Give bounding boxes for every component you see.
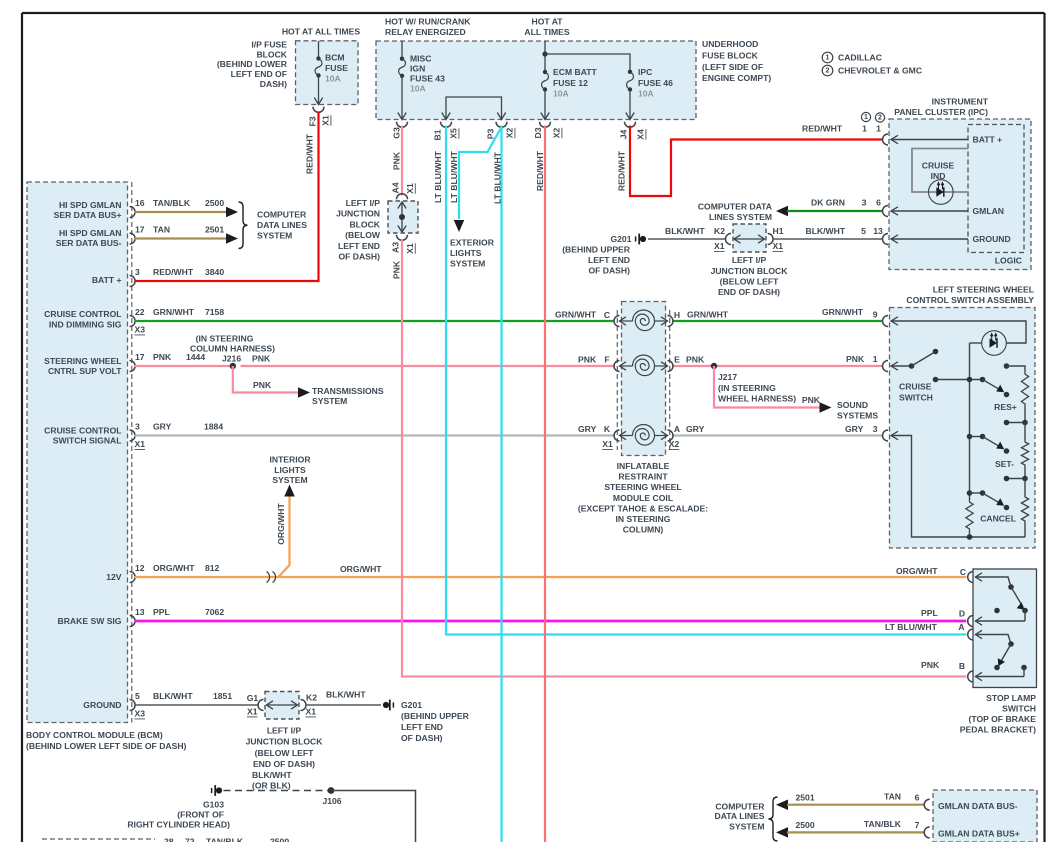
svg-text:1851: 1851 <box>213 691 232 701</box>
svg-text:GRN/WHT: GRN/WHT <box>555 310 597 320</box>
svg-text:IN STEERING: IN STEERING <box>616 514 671 524</box>
wire PNK 1444 BCM to coil with J216 splice <box>135 365 231 367</box>
svg-text:K2: K2 <box>306 693 317 703</box>
svg-text:1884: 1884 <box>204 422 223 432</box>
svg-text:H1: H1 <box>773 226 784 236</box>
IPC pin GROUND connector <box>883 234 889 245</box>
svg-text:3: 3 <box>873 424 878 434</box>
svg-text:CRUISE: CRUISE <box>922 161 955 171</box>
svg-text:1: 1 <box>864 114 868 121</box>
svg-text:JUNCTION: JUNCTION <box>336 209 380 219</box>
svg-text:(BELOW LEFT: (BELOW LEFT <box>720 277 779 287</box>
svg-text:MODULE COIL: MODULE COIL <box>613 493 673 503</box>
wire LT BLU/WHT branch to exterior lights system <box>459 127 502 219</box>
svg-text:(LEFT SIDE OF: (LEFT SIDE OF <box>702 62 763 72</box>
svg-text:LT BLU/WHT: LT BLU/WHT <box>492 151 502 204</box>
svg-text:G201: G201 <box>401 700 422 710</box>
wire GRN/WHT 7158 BCM to coil <box>135 320 615 322</box>
svg-text:LEFT I/P: LEFT I/P <box>732 255 767 265</box>
svg-text:3: 3 <box>862 198 867 208</box>
bus bracket to B1 and P3 terminals <box>446 97 502 120</box>
svg-text:16: 16 <box>135 198 145 208</box>
svg-text:LEFT END: LEFT END <box>588 255 630 265</box>
svg-text:6: 6 <box>915 793 920 803</box>
brace computer data lines (bottom) <box>769 797 778 841</box>
svg-text:HOT W/ RUN/CRANK: HOT W/ RUN/CRANK <box>385 17 471 27</box>
svg-text:BLK/WHT: BLK/WHT <box>252 770 292 780</box>
svg-text:B: B <box>959 661 965 671</box>
svg-text:2501: 2501 <box>796 793 815 803</box>
resistor R2 SET- <box>1024 423 1026 441</box>
svg-text:SWITCH: SWITCH <box>1002 704 1036 714</box>
svg-text:HI SPD GMLAN: HI SPD GMLAN <box>59 228 122 238</box>
svg-text:PPL: PPL <box>153 607 170 617</box>
svg-text:CONTROL SWITCH ASSEMBLY: CONTROL SWITCH ASSEMBLY <box>906 295 1034 305</box>
svg-text:HOT AT ALL TIMES: HOT AT ALL TIMES <box>282 27 361 37</box>
svg-text:OF DASH): OF DASH) <box>338 252 380 262</box>
svg-text:G103: G103 <box>203 800 224 810</box>
svg-text:BLK/WHT: BLK/WHT <box>326 690 366 700</box>
fuse MISC IGN FUSE 43 10A <box>401 41 403 59</box>
svg-text:PNK: PNK <box>392 151 402 170</box>
svg-text:10A: 10A <box>553 89 569 99</box>
ground G103 stud <box>211 788 213 793</box>
svg-text:F: F <box>604 355 609 365</box>
wire GRY coil to switch assembly <box>673 434 883 436</box>
BCM connector face line <box>131 182 133 723</box>
underhood fuse block box <box>376 41 696 120</box>
upper switch lever with arrow <box>1011 587 1023 607</box>
svg-text:PNK: PNK <box>153 352 172 362</box>
svg-text:D3: D3 <box>533 127 543 138</box>
svg-text:LEFT I/P: LEFT I/P <box>267 726 302 736</box>
svg-text:(BELOW LEFT: (BELOW LEFT <box>255 748 314 758</box>
svg-text:1: 1 <box>826 54 830 61</box>
svg-text:LT BLU/WHT: LT BLU/WHT <box>449 150 459 203</box>
svg-text:SWITCH: SWITCH <box>899 393 933 403</box>
svg-text:COMPUTER: COMPUTER <box>257 210 307 220</box>
svg-text:X1: X1 <box>773 241 784 251</box>
bottom-left module box (partial) <box>42 839 155 842</box>
tap bridge 1 <box>1024 406 1026 423</box>
inflatable restraint steering wheel module coil box <box>622 302 666 456</box>
svg-text:X1: X1 <box>602 439 613 449</box>
wire TAN 2501 GMLAN data bus- <box>776 799 788 810</box>
svg-text:SYSTEM: SYSTEM <box>257 231 292 241</box>
svg-text:G1: G1 <box>247 693 259 703</box>
svg-text:GRN/WHT: GRN/WHT <box>822 307 864 317</box>
svg-text:PNK: PNK <box>802 395 821 405</box>
BCM pin connector arcs and wire labels <box>130 207 136 218</box>
left I/P junction block box jb3 <box>265 692 299 720</box>
wire PPL 7062 BCM to stop lamp switch <box>135 620 967 623</box>
junction block jb2 connectors <box>726 234 732 245</box>
coil spiral row K-A <box>633 425 655 446</box>
svg-text:BODY CONTROL MODULE (BCM): BODY CONTROL MODULE (BCM) <box>26 730 163 740</box>
wire DK GRN to IPC GMLAN <box>776 206 788 217</box>
svg-text:(BEHIND UPPER: (BEHIND UPPER <box>401 711 470 721</box>
svg-text:LEFT STEERING WHEEL: LEFT STEERING WHEEL <box>933 285 1034 295</box>
svg-text:OF DASH): OF DASH) <box>588 266 630 276</box>
svg-text:H: H <box>674 310 680 320</box>
svg-text:TAN/BLK: TAN/BLK <box>153 198 191 208</box>
svg-text:GMLAN DATA BUS+: GMLAN DATA BUS+ <box>938 829 1020 839</box>
svg-text:SWITCH SIGNAL: SWITCH SIGNAL <box>53 436 122 446</box>
svg-text:10A: 10A <box>410 84 426 94</box>
svg-text:GROUND: GROUND <box>83 700 121 710</box>
svg-text:RELAY ENERGIZED: RELAY ENERGIZED <box>385 27 466 37</box>
svg-text:(OR BLK): (OR BLK) <box>252 781 291 791</box>
svg-text:(BEHIND UPPER: (BEHIND UPPER <box>562 245 631 255</box>
svg-text:LEFT END: LEFT END <box>401 722 443 732</box>
svg-text:2500: 2500 <box>796 820 815 830</box>
dashed wire G103 to J106 <box>224 790 332 792</box>
wire TAN/BLK 2500 from BCM pin16 <box>135 211 228 213</box>
left steering wheel control switch assembly box <box>890 308 1036 549</box>
GMLAN module box (bottom right) <box>933 790 1037 842</box>
connector arcs under underhood fuse block <box>397 122 408 128</box>
coil module connector arcs and arrows <box>614 316 620 327</box>
svg-text:GRY: GRY <box>153 422 172 432</box>
coil module connector face lines <box>616 310 618 450</box>
svg-text:GROUND: GROUND <box>973 234 1011 244</box>
svg-text:2501: 2501 <box>205 225 224 235</box>
svg-text:X3: X3 <box>135 325 146 335</box>
svg-text:28: 28 <box>164 837 174 842</box>
GRY signal path down and across bottom <box>891 436 1025 538</box>
svg-text:FUSE 12: FUSE 12 <box>553 78 588 88</box>
svg-text:X2: X2 <box>505 128 515 139</box>
svg-text:PNK: PNK <box>686 355 705 365</box>
svg-text:(BEHIND LOWER: (BEHIND LOWER <box>217 59 288 69</box>
svg-text:1: 1 <box>876 124 881 134</box>
svg-text:LEFT END OF: LEFT END OF <box>231 69 287 79</box>
wire PNK coil to switch with J217 splice <box>673 365 883 367</box>
brace computer data lines (top) <box>239 202 248 249</box>
svg-text:INSTRUMENT: INSTRUMENT <box>932 97 989 107</box>
svg-text:3840: 3840 <box>205 267 224 277</box>
svg-text:CRUISE: CRUISE <box>899 382 932 392</box>
wire PNK G3 vertical to junction block jb1 <box>401 126 403 196</box>
svg-text:BLOCK: BLOCK <box>349 219 380 229</box>
resistor R1 RES+ <box>1021 372 1028 406</box>
svg-text:A3: A3 <box>391 242 401 253</box>
splice J106 <box>328 787 335 794</box>
svg-text:2500: 2500 <box>205 198 224 208</box>
switch pin 1 PNK connector <box>883 361 889 372</box>
svg-text:X3: X3 <box>135 709 146 719</box>
wire PNK A3 to stop lamp switch pin B <box>402 239 966 677</box>
svg-text:SER DATA BUS+: SER DATA BUS+ <box>54 210 122 220</box>
IPC pin BATT+ connector <box>883 134 889 145</box>
coil spiral row F-E <box>633 355 655 376</box>
svg-text:FUSE BLOCK: FUSE BLOCK <box>702 50 759 60</box>
svg-text:RED/WHT: RED/WHT <box>617 150 627 191</box>
svg-text:ALL TIMES: ALL TIMES <box>524 27 569 37</box>
svg-text:GRY: GRY <box>686 424 705 434</box>
IPC logic inner box <box>968 125 1024 253</box>
junction block jb3 connectors G1/X1 K2/X1 <box>258 700 264 711</box>
svg-text:SER DATA BUS-: SER DATA BUS- <box>56 238 122 248</box>
cruise indicator loop <box>912 149 968 193</box>
I/P fuse block box (top left) <box>296 41 359 105</box>
svg-text:PNK: PNK <box>921 660 940 670</box>
wire to cruise indicator LED in switch assembly <box>891 321 1026 343</box>
cruise indicator LED lamp <box>929 180 954 205</box>
svg-text:1444: 1444 <box>186 352 205 362</box>
fuse BCM FUSE 10A <box>318 41 320 58</box>
svg-text:5: 5 <box>861 226 866 236</box>
left I/P junction block box jb2 <box>733 224 766 252</box>
svg-text:END OF DASH): END OF DASH) <box>718 287 780 297</box>
svg-text:(TOP OF BRAKE: (TOP OF BRAKE <box>969 714 1037 724</box>
svg-text:9: 9 <box>873 310 878 320</box>
svg-text:3: 3 <box>135 422 140 432</box>
svg-text:GMLAN: GMLAN <box>973 206 1005 216</box>
svg-text:3: 3 <box>135 267 140 277</box>
svg-text:GRY: GRY <box>845 424 864 434</box>
svg-text:13: 13 <box>873 226 883 236</box>
svg-text:BLOCK: BLOCK <box>256 49 287 59</box>
svg-text:CANCEL: CANCEL <box>980 514 1016 524</box>
svg-text:J106: J106 <box>322 796 341 806</box>
svg-text:C: C <box>960 567 966 577</box>
svg-text:COMPUTER: COMPUTER <box>715 802 765 812</box>
resistor R3 CANCEL <box>1024 479 1026 496</box>
wire BLK/WHT 1851 BCM to junction block jb3 <box>135 704 259 706</box>
svg-text:K: K <box>604 424 611 434</box>
svg-text:STEERING WHEEL: STEERING WHEEL <box>44 356 121 366</box>
svg-text:X1: X1 <box>405 243 415 254</box>
switch pin 9 GRN/WHT connector <box>883 316 889 327</box>
svg-text:INTERIOR: INTERIOR <box>269 455 311 465</box>
svg-text:CADILLAC: CADILLAC <box>838 53 882 63</box>
svg-text:6: 6 <box>876 198 881 208</box>
svg-text:FUSE 43: FUSE 43 <box>410 74 445 84</box>
wire RED/WHT 3840 BCM BATT+ to I/P fuse block F3 <box>135 112 319 282</box>
svg-text:RES+: RES+ <box>994 402 1017 412</box>
svg-text:E: E <box>674 355 680 365</box>
svg-text:G201: G201 <box>610 234 631 244</box>
svg-text:END OF DASH): END OF DASH) <box>253 759 315 769</box>
svg-text:F3: F3 <box>308 116 318 126</box>
svg-text:1: 1 <box>873 354 878 364</box>
svg-text:JUNCTION BLOCK: JUNCTION BLOCK <box>246 737 324 747</box>
svg-text:CHEVROLET & GMC: CHEVROLET & GMC <box>838 66 922 76</box>
svg-text:5: 5 <box>135 691 140 701</box>
coil spiral row C-H <box>633 310 655 331</box>
instrument panel cluster IPC outer box <box>889 119 1031 270</box>
left I/P junction block box jb1 <box>388 201 418 233</box>
svg-text:B1: B1 <box>433 129 443 140</box>
svg-text:PEDAL BRACKET): PEDAL BRACKET) <box>960 725 1036 735</box>
svg-text:2: 2 <box>826 67 830 74</box>
wire PNK branch to sound systems <box>714 366 821 408</box>
wire GRY 1884 BCM to coil <box>135 434 615 436</box>
RES+ resistor tap <box>1004 363 1010 369</box>
svg-text:RESTRAINT: RESTRAINT <box>618 472 668 482</box>
wire TAN 2501 from BCM pin17 <box>135 237 228 239</box>
svg-text:BLK/WHT: BLK/WHT <box>153 691 193 701</box>
svg-text:PNK: PNK <box>392 260 402 279</box>
svg-text:PANEL CLUSTER (IPC): PANEL CLUSTER (IPC) <box>894 107 988 117</box>
svg-text:COLUMN HARNESS): COLUMN HARNESS) <box>190 344 275 354</box>
svg-text:LIGHTS: LIGHTS <box>450 248 482 258</box>
svg-text:PPL: PPL <box>921 608 938 618</box>
svg-text:X1: X1 <box>321 115 331 126</box>
svg-text:GMLAN DATA BUS-: GMLAN DATA BUS- <box>938 801 1018 811</box>
svg-text:LT BLU/WHT: LT BLU/WHT <box>885 622 938 632</box>
in-line break symbol on ORG wire <box>267 572 276 583</box>
svg-text:LIGHTS: LIGHTS <box>274 465 306 475</box>
svg-text:J216: J216 <box>222 354 241 364</box>
wire BLK/WHT jb3 to ground G201 <box>306 704 381 706</box>
svg-text:ORG/WHT: ORG/WHT <box>896 566 938 576</box>
svg-text:X1: X1 <box>306 707 317 717</box>
svg-text:RED/WHT: RED/WHT <box>305 133 315 174</box>
svg-text:WHEEL HARNESS): WHEEL HARNESS) <box>718 394 796 404</box>
wire ORG/WHT 812 BCM to stop lamp switch <box>135 576 967 578</box>
wire BLK/WHT G201 to jb2 <box>648 238 726 240</box>
svg-text:SYSTEM: SYSTEM <box>729 822 764 832</box>
upper switch contact from C <box>975 577 1011 587</box>
svg-text:(BEHIND LOWER LEFT SIDE OF DAS: (BEHIND LOWER LEFT SIDE OF DASH) <box>26 741 187 751</box>
svg-text:X2: X2 <box>669 439 680 449</box>
IPC pin GMLAN connector <box>883 206 889 217</box>
svg-text:HI SPD GMLAN: HI SPD GMLAN <box>59 200 122 210</box>
svg-text:TAN/BLK: TAN/BLK <box>864 819 902 829</box>
svg-text:7062: 7062 <box>205 607 224 617</box>
svg-text:X2: X2 <box>552 128 562 139</box>
svg-text:1: 1 <box>862 124 867 134</box>
svg-text:2500: 2500 <box>270 837 289 842</box>
svg-text:13: 13 <box>135 607 145 617</box>
svg-text:JUNCTION BLOCK: JUNCTION BLOCK <box>711 266 789 276</box>
svg-text:ORG/WHT: ORG/WHT <box>340 564 382 574</box>
splice J216 <box>230 363 236 369</box>
svg-text:COLUMN): COLUMN) <box>623 525 664 535</box>
svg-text:CRUISE CONTROL: CRUISE CONTROL <box>44 309 121 319</box>
wire GRN/WHT coil to switch assembly <box>673 320 883 322</box>
svg-text:D: D <box>959 609 965 619</box>
svg-text:ORG/WHT: ORG/WHT <box>276 502 286 544</box>
svg-text:BATT +: BATT + <box>973 135 1003 145</box>
wire RED/WHT D3 vertical to page bottom <box>544 126 546 842</box>
svg-text:12: 12 <box>135 563 145 573</box>
svg-text:X1: X1 <box>247 707 258 717</box>
svg-text:X5: X5 <box>449 128 459 139</box>
svg-text:812: 812 <box>205 563 220 573</box>
svg-text:ORG/WHT: ORG/WHT <box>153 563 195 573</box>
jb1 connector arcs and internals A4/X1 A3/X1 <box>397 194 408 200</box>
svg-text:FUSE: FUSE <box>325 63 348 73</box>
svg-text:GRN/WHT: GRN/WHT <box>153 307 195 317</box>
stop lamp switch box <box>973 569 1037 688</box>
svg-text:CNTRL SUP VOLT: CNTRL SUP VOLT <box>48 366 122 376</box>
wire RED/WHT J4 to IPC BATT+ <box>630 126 882 197</box>
svg-text:INFLATABLE: INFLATABLE <box>617 461 670 471</box>
svg-text:72: 72 <box>185 837 195 842</box>
bus vertical line <box>969 343 971 500</box>
svg-text:J4: J4 <box>619 130 629 140</box>
svg-text:EXTERIOR: EXTERIOR <box>450 238 495 248</box>
svg-text:(FRONT OF: (FRONT OF <box>177 810 224 820</box>
svg-text:FUSE 46: FUSE 46 <box>638 78 673 88</box>
svg-text:SYSTEM: SYSTEM <box>450 259 485 269</box>
ground G201 stud (behind upper left end of dash) <box>383 702 389 708</box>
svg-text:CRUISE CONTROL: CRUISE CONTROL <box>44 425 121 435</box>
svg-text:TAN/BLK: TAN/BLK <box>206 837 244 842</box>
svg-text:IGN: IGN <box>410 63 425 73</box>
svg-text:(EXCEPT TAHOE & ESCALADE:: (EXCEPT TAHOE & ESCALADE: <box>578 503 708 513</box>
cruise on/off switch lever <box>891 365 912 367</box>
svg-text:RED/WHT: RED/WHT <box>153 267 194 277</box>
svg-text:SET-: SET- <box>995 459 1014 469</box>
svg-text:C: C <box>604 310 610 320</box>
svg-text:OF DASH): OF DASH) <box>401 733 443 743</box>
circled 1 and 2 above IPC pin <box>861 112 870 121</box>
svg-text:J217: J217 <box>718 372 737 382</box>
svg-text:7158: 7158 <box>205 307 224 317</box>
svg-text:10A: 10A <box>638 89 654 99</box>
svg-text:STOP LAMP: STOP LAMP <box>986 693 1036 703</box>
svg-text:SYSTEM: SYSTEM <box>272 475 307 485</box>
stop lamp switch pin C connector <box>968 572 973 583</box>
connector arc F3/X1 under I/P fuse block <box>313 107 324 113</box>
wire PNK branch to transmissions system <box>233 366 299 393</box>
svg-text:X4: X4 <box>636 129 646 140</box>
svg-text:LINES SYSTEM: LINES SYSTEM <box>709 212 772 222</box>
svg-text:(IN STEERING: (IN STEERING <box>196 334 254 344</box>
svg-text:(IN STEERING: (IN STEERING <box>718 383 776 393</box>
svg-text:MISC: MISC <box>410 54 431 64</box>
svg-text:7: 7 <box>915 820 920 830</box>
wire ORG/WHT branch to interior lights system <box>279 494 290 577</box>
wire J106 down to lower module <box>331 791 416 842</box>
wire TAN/BLK 2500 GMLAN data bus+ <box>776 827 788 838</box>
svg-text:SYSTEMS: SYSTEMS <box>837 411 878 421</box>
svg-text:BATT +: BATT + <box>92 275 122 285</box>
lower switch free contact <box>1021 665 1027 671</box>
fuse IPC FUSE 46 10A <box>628 70 632 74</box>
fuse ECM BATT FUSE 12 10A <box>544 41 546 72</box>
svg-text:HOT AT: HOT AT <box>531 17 563 27</box>
svg-text:TAN: TAN <box>153 225 170 235</box>
cruise LED lamp in switch assembly <box>982 331 1007 356</box>
SET- switch <box>967 434 973 440</box>
svg-text:2: 2 <box>878 114 882 121</box>
svg-text:BLK/WHT: BLK/WHT <box>665 226 705 236</box>
svg-text:IND DIMMING SIG: IND DIMMING SIG <box>49 319 122 329</box>
svg-text:RED/WHT: RED/WHT <box>802 124 843 134</box>
svg-text:PNK: PNK <box>252 354 271 364</box>
body control module BCM box <box>27 182 128 723</box>
wire LT BLU/WHT P3 vertical to page bottom <box>500 126 502 842</box>
svg-text:IPC: IPC <box>638 67 652 77</box>
resistor R4 on bus <box>966 500 973 531</box>
legend circled 1 CADILLAC <box>822 52 833 63</box>
stop lamp switch pin D connector <box>1024 611 1026 622</box>
svg-text:TAN: TAN <box>884 792 901 802</box>
svg-text:22: 22 <box>135 307 145 317</box>
RES+ switch <box>980 377 986 383</box>
legend circled 2 CHEVROLET & GMC <box>822 65 833 76</box>
svg-text:RIGHT CYLINDER HEAD): RIGHT CYLINDER HEAD) <box>127 820 230 830</box>
svg-text:A: A <box>958 622 964 632</box>
svg-text:GRY: GRY <box>578 424 597 434</box>
svg-text:ENGINE COMPT): ENGINE COMPT) <box>702 73 771 83</box>
svg-text:X1: X1 <box>405 183 415 194</box>
